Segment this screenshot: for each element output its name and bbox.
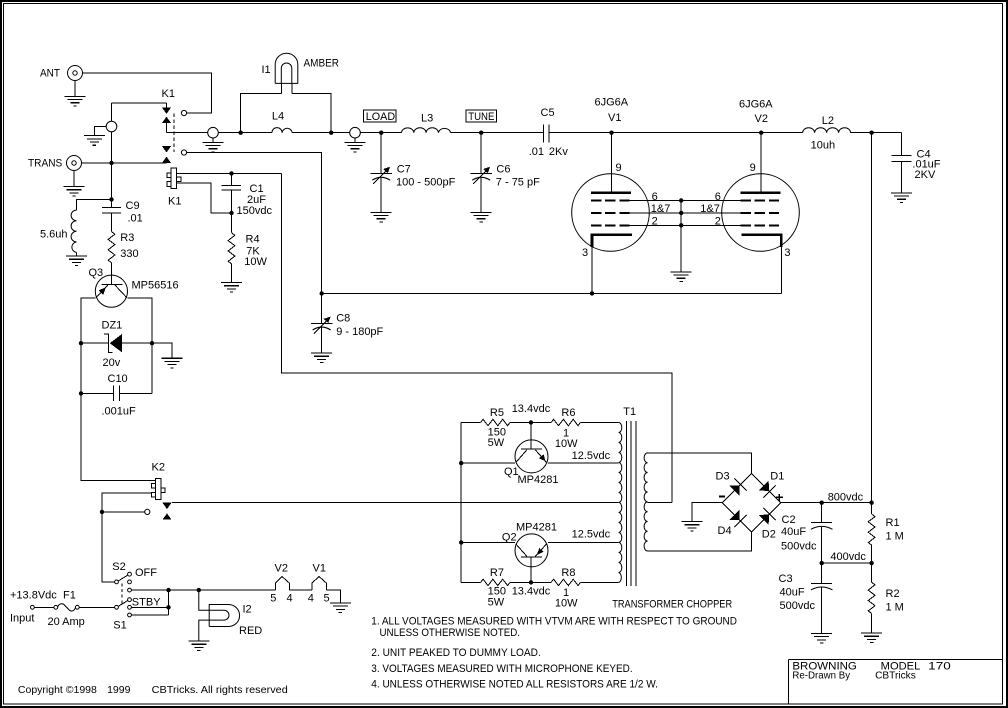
svg-text:C6: C6 xyxy=(496,163,510,175)
svg-text:I2: I2 xyxy=(243,604,252,616)
svg-text:40uF: 40uF xyxy=(780,587,805,599)
lamp I1 xyxy=(262,53,340,93)
node TUNE xyxy=(466,110,497,123)
svg-text:7 - 75 pF: 7 - 75 pF xyxy=(496,177,540,189)
svg-text:3. VOLTAGES MEASURED WITH MICR: 3. VOLTAGES MEASURED WITH MICROPHONE KEY… xyxy=(371,663,632,675)
resistor R2 xyxy=(861,563,904,643)
svg-text:5.6uh: 5.6uh xyxy=(40,229,68,241)
wire bridge plus to 800vdc rail xyxy=(781,502,872,504)
svg-text:R2: R2 xyxy=(886,588,900,600)
svg-text:K2: K2 xyxy=(152,462,165,474)
minus sign xyxy=(719,496,725,498)
diode D2 xyxy=(759,508,776,541)
switch S1 xyxy=(113,597,161,632)
wire K1 top feed xyxy=(112,103,167,163)
svg-text:C7: C7 xyxy=(397,163,411,175)
svg-text:1 M: 1 M xyxy=(886,531,904,543)
heater V2 xyxy=(270,563,292,605)
wire Q3 collector right xyxy=(128,298,153,343)
svg-text:MP56516: MP56516 xyxy=(132,280,179,292)
wire cathode bus xyxy=(322,247,782,293)
svg-text:D4: D4 xyxy=(718,525,732,537)
tube V1 6JG6A xyxy=(572,97,671,260)
wire grid bus 1&7 xyxy=(630,212,741,214)
svg-text:9: 9 xyxy=(616,162,622,174)
svg-text:9: 9 xyxy=(750,162,756,174)
wire B+ drop xyxy=(871,133,873,503)
svg-text:3: 3 xyxy=(582,247,588,259)
svg-text:R7: R7 xyxy=(490,567,504,579)
svg-text:3: 3 xyxy=(784,247,790,259)
node grid bus 6 xyxy=(679,198,683,202)
svg-text:F1: F1 xyxy=(63,590,76,602)
transistor Q3 MP56516 xyxy=(89,267,179,307)
capacitor C7 xyxy=(371,133,456,222)
node Q1 base xyxy=(529,420,533,424)
node Q2 emitter rail xyxy=(459,540,463,544)
svg-text:20v: 20v xyxy=(103,357,121,369)
relay K2 contact xyxy=(102,503,172,520)
inductor L3 xyxy=(402,112,451,132)
svg-text:1. ALL VOLTAGES MEASURED WITH: 1. ALL VOLTAGES MEASURED WITH VTVM ARE W… xyxy=(371,616,737,628)
wire lamp parallel box xyxy=(241,93,332,132)
svg-text:.01: .01 xyxy=(529,146,544,158)
capacitor C5 xyxy=(529,107,569,158)
svg-text:V2: V2 xyxy=(755,113,768,125)
svg-text:4: 4 xyxy=(308,592,314,604)
svg-text:2Kv: 2Kv xyxy=(549,146,568,158)
node K2 arm xyxy=(100,510,104,514)
svg-text:2KV: 2KV xyxy=(915,169,936,181)
node DZ1 right xyxy=(150,341,154,345)
ground (bridge minus) xyxy=(682,503,723,531)
svg-text:TRANSFORMER CHOPPER: TRANSFORMER CHOPPER xyxy=(612,599,732,611)
svg-text:TUNE: TUNE xyxy=(468,111,494,123)
svg-text:K1: K1 xyxy=(168,196,181,208)
svg-text:V1: V1 xyxy=(313,563,326,575)
transistor Q1 MP4281 xyxy=(504,423,558,486)
svg-text:R8: R8 xyxy=(561,567,575,579)
tube V2 6JG6A xyxy=(700,99,799,259)
svg-text:5W: 5W xyxy=(488,596,505,608)
feedthrough bead K1 side xyxy=(203,127,224,152)
capacitor C4 xyxy=(891,133,941,203)
node R1 top 800vdc xyxy=(869,501,873,505)
svg-text:R4: R4 xyxy=(246,233,260,245)
node S1 output xyxy=(166,605,170,609)
svg-text:150vdc: 150vdc xyxy=(237,205,273,217)
node C8 / cathode bus xyxy=(320,291,324,295)
wire T1 secondary top to bridge xyxy=(648,453,752,474)
svg-text:2. UNIT PEAKED TO DUMMY LOAD.: 2. UNIT PEAKED TO DUMMY LOAD. xyxy=(371,647,541,659)
node C10 left xyxy=(79,391,83,395)
wire T1 secondary CT xyxy=(648,502,672,504)
capacitor C10 xyxy=(81,343,152,417)
node V2 plate tap xyxy=(759,131,763,135)
wire switch outputs xyxy=(131,590,275,615)
relay K1 coil xyxy=(167,168,181,208)
svg-text:C2: C2 xyxy=(782,514,796,526)
variable capacitor C8 xyxy=(311,293,383,362)
node DZ1 anode-left xyxy=(79,341,83,345)
svg-text:9 - 180pF: 9 - 180pF xyxy=(336,326,383,338)
svg-text:400vdc: 400vdc xyxy=(830,551,866,563)
svg-text:1999: 1999 xyxy=(107,684,131,696)
capacitor C3 xyxy=(779,563,833,643)
bridge rectifier diamond xyxy=(722,473,781,532)
svg-text:STBY: STBY xyxy=(132,597,161,609)
node R2 top 400vdc xyxy=(869,561,873,565)
svg-text:C10: C10 xyxy=(108,373,128,385)
relay K1 contact B xyxy=(162,146,187,163)
ground (heater end) xyxy=(326,590,351,612)
svg-text:5W: 5W xyxy=(488,437,505,449)
node V1 cathode xyxy=(590,291,594,295)
svg-text:R3: R3 xyxy=(120,232,134,244)
wire K1 coil bottom to C1 bottom xyxy=(177,183,232,213)
svg-text:T1: T1 xyxy=(623,406,636,418)
wire Q2 emitter/collector xyxy=(461,542,618,544)
svg-text:10W: 10W xyxy=(244,256,267,268)
svg-text:DZ1: DZ1 xyxy=(102,320,123,332)
resistor R6 xyxy=(551,407,619,450)
node TRANS branch xyxy=(109,161,113,165)
svg-text:L3: L3 xyxy=(421,112,433,124)
svg-text:Input: Input xyxy=(10,613,34,625)
svg-text:10uh: 10uh xyxy=(811,139,835,151)
wire K2 to T1 primary CT xyxy=(172,502,619,504)
svg-text:170: 170 xyxy=(928,660,951,672)
svg-text:L2: L2 xyxy=(822,115,834,127)
svg-text:6: 6 xyxy=(652,191,658,203)
wire K1 coil to C1 xyxy=(177,172,282,174)
svg-text:D2: D2 xyxy=(762,529,776,541)
zener DZ1 xyxy=(81,320,152,370)
svg-text:R6: R6 xyxy=(561,407,575,419)
node Q1 emitter rail xyxy=(459,461,463,465)
svg-text:4. UNLESS OTHERWISE NOTED ALL: 4. UNLESS OTHERWISE NOTED ALL RESISTORS … xyxy=(371,679,658,691)
resistor R1 xyxy=(868,503,904,563)
node L4 right xyxy=(329,131,333,135)
svg-text:Q3: Q3 xyxy=(89,267,104,279)
svg-text:Re-Drawn By: Re-Drawn By xyxy=(792,670,850,681)
svg-text:K1: K1 xyxy=(162,88,175,100)
svg-text:5: 5 xyxy=(270,592,276,604)
svg-text:V2: V2 xyxy=(275,563,288,575)
svg-text:+13.8Vdc: +13.8Vdc xyxy=(10,590,57,602)
resistor R4 xyxy=(221,213,268,292)
capacitor C9 xyxy=(102,163,143,225)
svg-text:TRANS: TRANS xyxy=(28,158,62,170)
svg-text:13.4vdc: 13.4vdc xyxy=(512,403,551,415)
svg-text:12.5vdc: 12.5vdc xyxy=(572,450,611,462)
svg-text:800vdc: 800vdc xyxy=(828,492,864,504)
chopper block left rail xyxy=(460,423,462,583)
ground (grid bus) xyxy=(671,201,692,282)
wire K2 coil to switch xyxy=(102,493,151,582)
diode D3 xyxy=(716,471,747,496)
wire ANT to K1 NO contact xyxy=(83,73,212,113)
switch S2 xyxy=(112,561,157,592)
capacitor C1 xyxy=(221,173,272,217)
wire to K2 coil xyxy=(81,393,155,480)
svg-text:OFF: OFF xyxy=(135,567,157,579)
resistor R3 xyxy=(108,213,139,275)
wire between heaters xyxy=(289,589,311,591)
inductor L4 xyxy=(272,111,292,133)
svg-text:CBTricks: CBTricks xyxy=(875,670,916,681)
inductor 5.6uh xyxy=(40,199,112,265)
svg-text:500vdc: 500vdc xyxy=(781,541,817,553)
svg-text:R1: R1 xyxy=(886,517,900,529)
svg-text:40uF: 40uF xyxy=(781,526,806,538)
node grid bus 2 xyxy=(679,223,683,227)
resistor R8 xyxy=(551,567,619,610)
svg-text:5: 5 xyxy=(324,592,330,604)
notes xyxy=(371,616,737,691)
feedthrough bead left xyxy=(84,121,117,145)
svg-text:13.4vdc: 13.4vdc xyxy=(512,586,551,598)
node LOAD xyxy=(363,110,396,123)
svg-text:10W: 10W xyxy=(555,598,578,610)
svg-text:C3: C3 xyxy=(779,573,793,585)
diode D1 xyxy=(759,471,785,498)
plus sign xyxy=(776,494,783,501)
svg-text:.01: .01 xyxy=(128,213,143,225)
capacitor C6 xyxy=(471,133,541,222)
svg-text:ANT: ANT xyxy=(40,68,60,80)
svg-text:V1: V1 xyxy=(608,112,621,124)
node C9 top xyxy=(109,197,113,201)
wire T1 secondary bottom to bridge xyxy=(648,532,752,551)
ANT connector xyxy=(40,66,83,81)
wire main top bus xyxy=(167,132,902,134)
svg-text:C8: C8 xyxy=(336,313,350,325)
svg-text:6: 6 xyxy=(715,191,721,203)
resistor R7 xyxy=(461,567,551,608)
wire Q1 emitter/collector xyxy=(461,462,618,464)
svg-text:6JG6A: 6JG6A xyxy=(739,99,773,111)
node grid bus 1&7 xyxy=(679,211,683,215)
ground (ANT) xyxy=(65,81,86,106)
resistor R5 xyxy=(461,407,551,449)
switch link dashed xyxy=(121,584,123,606)
wire K1 NC to C8 riser xyxy=(187,153,322,294)
fuse F1 xyxy=(10,590,115,629)
node C6 tap xyxy=(479,131,483,135)
node C7 tap xyxy=(379,131,383,135)
K1 mechanical link (dashed) xyxy=(173,114,175,153)
node C1 top xyxy=(229,171,233,175)
svg-text:UNLESS OTHERWISE NOTED.: UNLESS OTHERWISE NOTED. xyxy=(380,627,521,639)
node V1 plate tap xyxy=(609,131,613,135)
svg-text:MP4281: MP4281 xyxy=(516,522,557,534)
node L4 left xyxy=(239,131,243,135)
heater V1 xyxy=(308,563,330,605)
wire 400vdc xyxy=(822,562,872,564)
svg-text:D1: D1 xyxy=(770,471,784,483)
node L2 / B+ tap xyxy=(869,131,873,135)
relay K1 contact A xyxy=(162,88,187,133)
node C1 bottom / R4 xyxy=(229,211,233,215)
svg-text:1 M: 1 M xyxy=(886,602,904,614)
relay K2 coil xyxy=(151,462,165,500)
capacitor C2 xyxy=(781,503,833,563)
wire Q3 emitter left xyxy=(81,298,95,343)
svg-text:100 - 500pF: 100 - 500pF xyxy=(396,177,456,189)
svg-text:C5: C5 xyxy=(541,107,555,119)
wire chopper drive from K1 coil xyxy=(281,173,672,502)
node I2 tap xyxy=(197,588,201,592)
inductor L2 xyxy=(803,115,851,151)
node Q2 base xyxy=(529,580,533,584)
diode D4 xyxy=(718,510,747,537)
svg-text:10W: 10W xyxy=(555,438,578,450)
svg-text:D3: D3 xyxy=(716,471,730,483)
svg-text:Copyright ©1998: Copyright ©1998 xyxy=(18,684,97,696)
svg-text:L4: L4 xyxy=(272,111,284,123)
svg-text:4: 4 xyxy=(287,592,293,604)
ground (DZ1 stub) xyxy=(152,343,183,368)
svg-text:R5: R5 xyxy=(490,407,504,419)
svg-text:AMBER: AMBER xyxy=(304,58,340,70)
svg-text:6JG6A: 6JG6A xyxy=(595,97,629,109)
svg-text:C9: C9 xyxy=(126,200,140,212)
svg-text:S1: S1 xyxy=(113,620,126,632)
svg-text:RED: RED xyxy=(239,625,262,637)
svg-text:20 Amp: 20 Amp xyxy=(48,616,85,628)
transformer T1 xyxy=(612,406,732,611)
transistor Q2 MP4281 xyxy=(502,522,557,583)
svg-text:Q1: Q1 xyxy=(504,466,519,478)
title block xyxy=(789,659,1003,703)
wire grid bus 6 xyxy=(630,200,741,202)
ground (TRANS) xyxy=(64,171,85,197)
svg-text:Q2: Q2 xyxy=(502,531,517,543)
svg-text:.001uF: .001uF xyxy=(102,406,137,418)
feedthrough bead mid xyxy=(345,127,366,152)
TRANS connector xyxy=(28,156,82,171)
wire grid bus 2 xyxy=(630,224,741,226)
wire TRANS to K1 xyxy=(82,162,167,164)
svg-text:12.5vdc: 12.5vdc xyxy=(572,529,611,541)
svg-text:S2: S2 xyxy=(112,561,125,573)
svg-text:CBTricks. All rights reserved: CBTricks. All rights reserved xyxy=(152,684,288,696)
svg-text:500vdc: 500vdc xyxy=(780,600,816,612)
svg-text:LOAD: LOAD xyxy=(366,111,395,123)
svg-text:330: 330 xyxy=(120,248,138,260)
node C2 top 800vdc xyxy=(820,501,824,505)
lamp I2 xyxy=(188,590,262,651)
node heater feed xyxy=(166,588,170,592)
svg-text:I1: I1 xyxy=(262,64,271,76)
node C3 top 400vdc xyxy=(820,561,824,565)
svg-text:MP4281: MP4281 xyxy=(518,474,559,486)
